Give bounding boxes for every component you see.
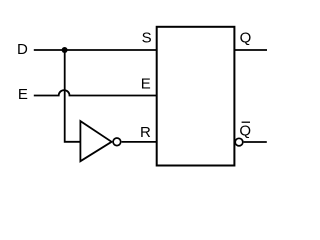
svg-text:S: S — [142, 29, 152, 46]
svg-text:Q: Q — [240, 29, 252, 46]
svg-text:E: E — [18, 86, 28, 103]
svg-text:Q: Q — [239, 122, 251, 139]
svg-text:D: D — [17, 41, 28, 58]
svg-text:R: R — [140, 124, 151, 141]
svg-text:E: E — [141, 76, 151, 93]
